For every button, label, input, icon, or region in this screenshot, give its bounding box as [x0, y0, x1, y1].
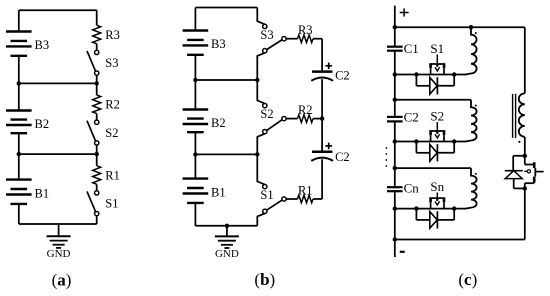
wire: part (b) top wire: [195, 7, 257, 9]
inductor Ln (cell winding): [466, 168, 477, 209]
MOSFET switch S2: [429, 109, 445, 142]
wire: junction wire (a) lower: [17, 152, 97, 156]
svg-text:S1: S1: [260, 188, 273, 202]
wire: cell 2 bottom wire (c): [393, 139, 467, 143]
svg-text:R3: R3: [105, 28, 120, 42]
MOSFET switch Sn: [429, 179, 445, 209]
svg-text:R1: R1: [298, 183, 313, 197]
switch S1: [257, 154, 286, 225]
svg-text:B1: B1: [211, 186, 226, 200]
wire: part (c) left rail: [394, 6, 396, 257]
resistor R2: [93, 83, 120, 120]
wire: junction wire (a) upper: [17, 81, 97, 85]
battery B1: [183, 154, 226, 225]
battery B3: [6, 10, 49, 83]
wire: part (b) bottom wire: [195, 225, 257, 227]
battery B1: [6, 154, 49, 224]
wire: part (c) right rail upper: [524, 27, 526, 93]
node: junction of B2/B1 branch (a): [95, 152, 99, 156]
svg-text:R2: R2: [298, 103, 313, 117]
diode Do (output, conducting up): [505, 156, 525, 189]
polarity dot of L1: [475, 32, 477, 34]
node: GND junction (b): [225, 224, 229, 228]
svg-text:B1: B1: [35, 187, 50, 201]
svg-text:GND: GND: [47, 248, 71, 260]
node: ellipsis dots (more cells): [386, 147, 388, 167]
switch S1: [87, 191, 119, 224]
svg-text:(a): (a): [52, 271, 72, 290]
switch S2: [87, 120, 119, 154]
wire: cell 2 top wire (c): [393, 98, 471, 102]
wire: part (c) bottom wire: [393, 237, 525, 241]
battery B2: [6, 83, 49, 154]
node: output device top: [523, 154, 527, 158]
capacitor C2 (electrolytic): [311, 119, 349, 199]
switch S2: [257, 80, 286, 154]
capacitor Cn: [387, 181, 419, 196]
capacitor C2: [387, 110, 419, 125]
transformer core: [513, 94, 516, 138]
wire: cell 3 top wire (c): [393, 166, 471, 170]
svg-text:Sn: Sn: [430, 179, 444, 194]
wire: part (a) bottom wire: [19, 223, 97, 225]
capacitor C2 (electrolytic): [311, 39, 349, 119]
svg-text:B3: B3: [211, 37, 226, 51]
node: output device bottom: [523, 186, 527, 190]
svg-text:C2: C2: [335, 150, 350, 164]
wire: right rail mid segment: [524, 137, 526, 156]
polarity dot of Ln: [475, 173, 477, 175]
svg-text:Cn: Cn: [404, 181, 420, 196]
svg-text:R1: R1: [105, 168, 120, 182]
wire: junction wire (b) lower: [193, 152, 259, 156]
node: right rail junction (b): [320, 116, 324, 120]
MOSFET switch S1: [429, 41, 445, 75]
svg-text:S1: S1: [430, 41, 444, 56]
svg-text:S2: S2: [105, 126, 118, 140]
svg-text:C1: C1: [404, 41, 419, 56]
battery B2: [183, 80, 226, 154]
resistor R3: [286, 23, 322, 42]
svg-text:S3: S3: [260, 28, 273, 42]
svg-text:GND: GND: [215, 248, 239, 260]
diode Dn (antiparallel): [416, 209, 454, 229]
resistor R1: [93, 154, 120, 191]
svg-text:S3: S3: [105, 56, 118, 70]
wire: junction wire (b) upper: [193, 78, 259, 82]
inductor L1 (cell winding): [466, 27, 477, 74]
battery B3: [183, 8, 226, 81]
resistor R1: [286, 183, 322, 202]
switch S3: [87, 50, 119, 83]
diode D2 (antiparallel): [416, 142, 454, 162]
svg-text:S2: S2: [430, 109, 444, 124]
svg-text:R2: R2: [105, 98, 120, 112]
svg-text:S1: S1: [105, 197, 118, 211]
ground GND (a): [47, 224, 71, 260]
power - terminal: [400, 251, 405, 253]
svg-text:C2: C2: [404, 110, 419, 125]
diode D1 (antiparallel): [416, 75, 454, 95]
svg-text:S2: S2: [260, 107, 273, 121]
switch S3: [257, 8, 286, 81]
svg-text:B2: B2: [211, 116, 226, 130]
wire: right rail lower segment: [524, 188, 526, 239]
svg-text:(c): (c): [458, 270, 477, 289]
polarity dot of output winding: [518, 141, 520, 143]
svg-text:B3: B3: [35, 38, 50, 52]
wire: cell 1 bottom wire (c): [393, 72, 467, 76]
capacitor C1: [387, 41, 419, 56]
svg-text:B2: B2: [35, 117, 50, 131]
power + terminal: [400, 8, 409, 16]
node: junction of B3/B2 branch (a): [95, 81, 99, 85]
wire: cell 3 bottom wire (c): [393, 206, 467, 210]
resistor R2: [286, 103, 322, 122]
polarity dot of L2: [475, 105, 477, 107]
resistor R3: [93, 10, 120, 50]
inductor L2 (cell winding): [466, 100, 477, 142]
ground GND (b): [215, 226, 239, 260]
inductor Lp (transformer output winding): [519, 93, 525, 136]
svg-text:(b): (b): [254, 270, 275, 289]
MOSFET Qo (output switch): [524, 156, 543, 189]
svg-text:R3: R3: [298, 23, 313, 37]
wire: cell 1 top wire (c): [393, 25, 525, 29]
wire: part (a) top wire: [19, 9, 97, 11]
svg-text:C2: C2: [335, 68, 350, 82]
